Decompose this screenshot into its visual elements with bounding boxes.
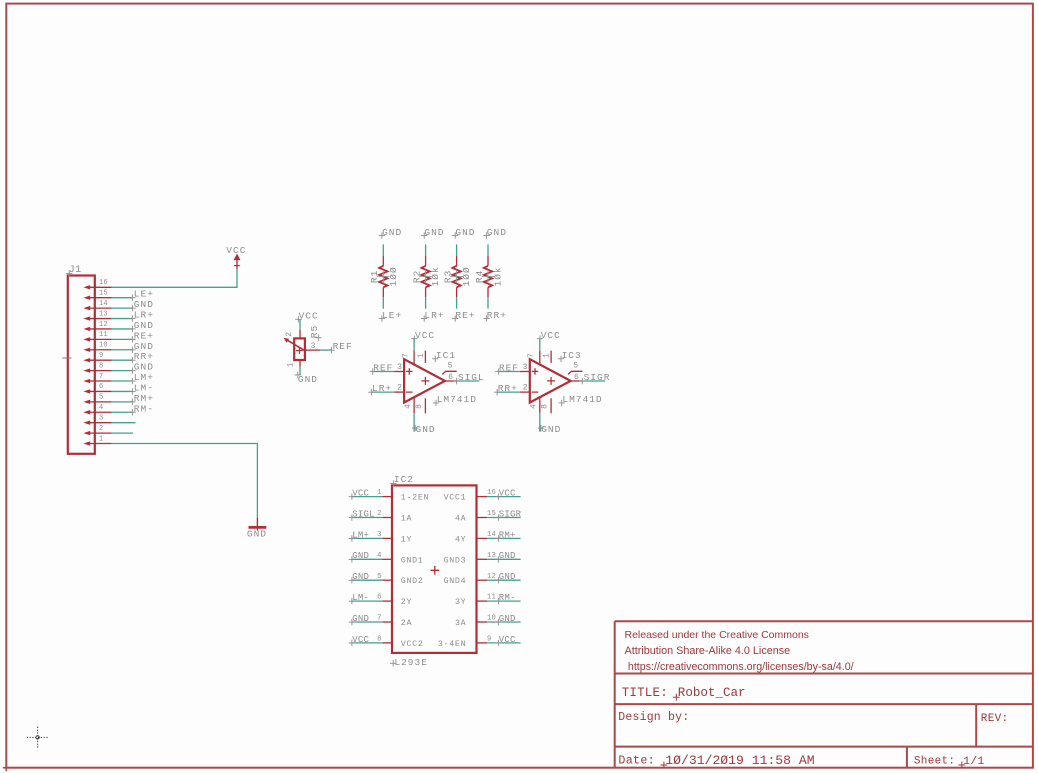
title block divider below Design by [615,746,1033,748]
H-bridge IC2 origin cross [430,566,439,575]
wire and net label RM+ at J1 pin 5 [112,401,133,403]
svg-text:RM-: RM- [134,403,154,414]
svg-text:SIGL: SIGL [458,372,485,383]
wire stub at J1 pin 2 [112,432,133,434]
J1 pin 3 [83,420,90,424]
net label LE+ below R1 [379,315,385,321]
IC2 pin 13 (GND3) [477,558,488,560]
svg-text:LM741D: LM741D [437,394,477,405]
svg-text:1Øk: 1Øk [493,266,504,286]
wire and net label RR+ at J1 pin 9 [112,359,133,361]
svg-text:IC3: IC3 [562,350,582,361]
svg-text:VCC: VCC [352,635,369,645]
wire below R3 [456,297,458,309]
svg-text:4Y: 4Y [455,535,466,544]
svg-text:8: 8 [415,404,424,409]
J1 pin 16 [83,285,90,289]
wire REF to IC3 [498,371,520,373]
op-amp IC1 pin 2 inverting input [394,391,405,393]
svg-text:1Y: 1Y [401,535,412,544]
svg-text:LM+: LM+ [352,530,369,540]
svg-text:LM-: LM- [352,593,369,603]
wire VCC to R5 [299,319,301,330]
svg-text:16: 16 [99,279,108,287]
svg-text:R1: R1 [369,270,380,283]
J1 pin 9 [83,358,90,362]
wire and net label LE+ at J1 pin 15 [112,297,133,299]
op-amp IC3 power pins 7 1 4 8 [539,351,541,365]
net label SIGR at IC3 [579,378,585,384]
wire and net label GND at IC2 pin 10 [487,621,520,623]
svg-text:1Øk: 1Øk [430,266,441,286]
svg-text:GND: GND [247,529,267,540]
resistor R3 [456,256,458,266]
wire and net label LM+ at J1 pin 7 [112,380,133,382]
potentiometer R5 wiper arrow [288,340,305,350]
wire and net label VCC at IC2 pin 1 [352,496,383,498]
IC2 pin 11 (3Y) [477,600,488,602]
net label RR+ below R4 [483,315,489,321]
svg-text:RE+: RE+ [455,310,475,321]
svg-text:5: 5 [448,362,453,371]
op-amp IC1 triangle body [404,359,445,402]
wire and net label GND at IC2 pin 5 [352,579,383,581]
wire and net label LM- at J1 pin 6 [112,390,133,392]
wire REF from R5 [320,349,332,351]
svg-text:REF: REF [499,363,519,374]
svg-text:R4: R4 [474,270,485,283]
op-amp IC3 value LM741D [559,400,565,406]
J1 pin 10 [83,348,90,352]
op-amp IC1 pin 6 output [445,380,457,382]
wire and net label GND at IC2 pin 13 [487,558,520,560]
svg-text:GND: GND [487,227,507,238]
title block outline [615,621,1033,768]
svg-text:8: 8 [541,404,550,409]
svg-text:6: 6 [99,383,103,391]
wire and net label RM- at J1 pin 4 [112,411,133,413]
wire VCC to IC1 [413,339,415,351]
wire and net label GND at IC2 pin 7 [352,621,383,623]
svg-text:GND: GND [382,227,402,238]
potentiometer R5 body [294,338,305,360]
svg-text:14: 14 [99,300,108,308]
net label REF at IC1 [370,368,376,374]
net label REF at R5 [328,347,334,353]
net label REF at IC3 [495,368,501,374]
date value [661,762,668,769]
svg-text:Date:: Date: [618,754,655,768]
wire REF to IC1 [373,371,395,373]
net label GND above R2 [421,232,427,238]
IC2 pin 9 (3-4EN) [477,642,488,644]
sheet origin marker (dotted cross) [27,727,48,748]
title block REV divider [975,704,977,747]
svg-text:VCC1: VCC1 [444,494,467,503]
J1 pin 11 [83,337,90,341]
J1 pin 4 [83,410,90,414]
op-amp IC1 value LM741D [433,400,439,406]
op-amp IC1 power pins 7 1 4 8 [413,351,415,365]
J1 pin 12 [83,327,90,331]
wire IC3 to GND [539,413,541,432]
H-bridge IC2 outline [392,485,477,653]
net label LR+ below R2 [421,315,427,321]
svg-text:RR+: RR+ [487,310,507,321]
net label VCC above R5 [295,316,301,322]
IC2 pin 1 (1-2EN) [382,496,392,498]
svg-text:GND1: GND1 [401,556,424,565]
connector J1 origin tick [62,357,71,359]
svg-text:IC2: IC2 [394,474,414,485]
net label GND below IC1 [412,425,418,431]
VCC supply symbol (arrow) above J1 [234,254,241,261]
H-bridge IC2 name [390,480,396,486]
IC2 pin 7 (2A) [382,621,392,623]
svg-text:9: 9 [99,352,103,360]
resistor R1 [382,256,384,266]
wire and net label RM- at IC2 pin 11 [487,600,520,602]
svg-text:LE+: LE+ [382,310,402,321]
svg-text:SIGL: SIGL [352,509,374,519]
svg-text:13: 13 [99,310,108,318]
svg-text:1ØØ: 1ØØ [461,266,472,286]
svg-text:4: 4 [530,404,539,409]
svg-text:3: 3 [397,363,402,372]
svg-text:RM+: RM+ [499,530,516,540]
H-bridge IC2 value L293E [390,660,396,666]
svg-text:1/1: 1/1 [963,756,984,768]
resistor R2 [425,256,427,266]
svg-text:GND: GND [134,320,154,331]
svg-text:5: 5 [99,394,103,402]
wire R5 to GND [299,366,301,374]
title block Sheet divider [906,747,908,768]
svg-text:1: 1 [287,362,296,367]
wire from J1 pin 16 to VCC [112,269,237,288]
svg-text:LM-: LM- [134,382,154,393]
svg-text:GND2: GND2 [401,577,424,586]
svg-text:7: 7 [527,353,536,358]
wire and net label GND at J1 pin 14 [112,307,133,309]
svg-text:6: 6 [574,373,579,382]
svg-text:GND: GND [499,572,516,582]
wire and net label LM- at IC2 pin 6 [352,600,383,602]
net label RE+ below R3 [452,315,458,321]
svg-text:GND: GND [499,614,516,624]
svg-text:2Y: 2Y [401,598,412,607]
svg-text:RR+: RR+ [498,383,518,394]
frame corner overshoot bottom-left [3,768,7,772]
svg-text:REV:: REV: [981,713,1009,725]
svg-text:GND: GND [298,374,318,385]
net label VCC above IC3 [537,336,543,342]
sheet value 1/1 [958,762,965,769]
svg-text:Design by:: Design by: [618,711,689,724]
wire LR+ to IC1 [371,391,394,393]
svg-text:1: 1 [543,353,552,358]
wire above R4 [487,244,489,256]
svg-text:REF: REF [373,363,393,374]
wire VCC to IC3 [539,339,541,351]
svg-text:GND4: GND4 [444,577,467,586]
wire and net label GND at J1 pin 8 [112,370,133,372]
svg-text:12: 12 [99,321,108,329]
IC2 pin 16 (VCC1) [477,496,488,498]
title block divider below TITLE [615,703,1033,705]
op-amp IC1 origin cross [421,377,429,385]
IC2 pin 6 (2Y) [382,600,392,602]
wire and net label RE+ at J1 pin 11 [112,338,133,340]
svg-text:RM-: RM- [499,593,516,603]
wire above R2 [425,244,427,256]
svg-text:VCC: VCC [541,330,561,341]
IC2 pin 5 (GND2) [382,579,392,581]
svg-text:GND: GND [416,424,436,435]
svg-text:1Ø/31/2Ø19 11:58 AM: 1Ø/31/2Ø19 11:58 AM [665,753,814,768]
svg-text:IC1: IC1 [436,350,456,361]
svg-text:GND: GND [352,614,369,624]
op-amp IC3 pin 5 offset stub [568,371,582,374]
svg-text:Released under the Creative Co: Released under the Creative Commons [625,629,809,641]
svg-text:1: 1 [417,353,426,358]
wire and net label SIGR at IC2 pin 15 [487,517,520,519]
net label GND above R3 [452,232,458,238]
svg-text:2A: 2A [401,619,412,628]
svg-text:GND: GND [455,227,475,238]
op-amp IC1 designator [432,356,438,362]
svg-text:3-4EN: 3-4EN [438,640,466,649]
potentiometer R5 pin 3 wiper [305,349,321,351]
op-amp IC3 pin 6 output [571,380,583,382]
svg-text:LM+: LM+ [134,372,154,383]
svg-text:RR+: RR+ [134,351,154,362]
IC2 pin 10 (3A) [477,621,488,623]
svg-text:R3: R3 [442,270,453,283]
wire and net label GND at IC2 pin 12 [487,579,520,581]
title value Robot_Car [673,694,680,701]
svg-text:TITLE:: TITLE: [622,686,668,700]
potentiometer R5 pin 2 [299,330,301,339]
svg-text:8: 8 [99,362,103,370]
svg-text:1ØØ: 1ØØ [388,266,399,286]
svg-text:GND: GND [352,551,369,561]
svg-text:R2: R2 [411,270,422,283]
wire below R2 [425,297,427,309]
svg-text:VCC: VCC [299,311,319,322]
svg-text:4A: 4A [455,515,466,524]
svg-text:VCC2: VCC2 [401,640,424,649]
IC2 pin 8 (VCC2) [382,642,392,644]
op-amp IC3 input polarity marks [532,368,538,392]
svg-text:https://creativecommons.org/li: https://creativecommons.org/licenses/by-… [628,661,854,673]
op-amp IC3 triangle body [530,359,571,402]
J1 pin 8 [83,368,90,372]
net label RR+ at IC3 [494,389,500,395]
IC2 pin 3 (1Y) [382,537,392,539]
svg-text:Robot_Car: Robot_Car [678,686,746,700]
svg-text:7: 7 [99,373,103,381]
svg-text:GND: GND [134,362,154,373]
svg-text:3: 3 [99,414,103,422]
wire stub at J1 pin 3 [112,422,136,424]
net label GND above R4 [483,232,489,238]
wire and net label VCC at IC2 pin 16 [487,496,520,498]
IC2 pin 2 (1A) [382,517,392,519]
svg-text:GND: GND [541,424,561,435]
svg-text:3A: 3A [455,619,466,628]
svg-text:SIGR: SIGR [584,372,611,383]
J1 pin 14 [83,306,90,310]
svg-text:VCC: VCC [415,330,435,341]
svg-text:3Y: 3Y [455,598,466,607]
wire and net label GND at J1 pin 12 [112,328,133,330]
wire above R3 [456,244,458,256]
wire from J1 pin 1 to GND symbol [112,444,258,519]
svg-text:RM+: RM+ [134,393,154,404]
IC2 pin 4 (GND1) [382,558,392,560]
svg-text:VCC: VCC [352,489,369,499]
op-amp IC1 pin 3 non-inverting input [394,371,405,373]
svg-text:GND: GND [134,299,154,310]
wire and net label LR+ at J1 pin 13 [112,318,133,320]
svg-text:11: 11 [99,331,108,339]
IC2 pin 12 (GND4) [477,579,488,581]
resistor R4 [487,256,489,266]
svg-text:4: 4 [404,404,413,409]
svg-text:1: 1 [99,435,103,443]
op-amp IC3 pin 3 non-inverting input [520,371,531,373]
net label GND below IC3 [538,425,544,431]
svg-text:VCC: VCC [499,635,516,645]
svg-text:Attribution Share-Alike 4.0 Li: Attribution Share-Alike 4.0 License [625,645,791,657]
wire and net label GND at J1 pin 10 [112,349,133,351]
op-amp IC3 pin 2 inverting input [520,391,531,393]
GND supply symbol bar [256,518,258,526]
op-amp IC1 input polarity marks [406,368,412,392]
svg-text:3: 3 [311,342,316,351]
svg-text:REF: REF [333,341,353,352]
J1 pin 13 [83,316,90,320]
op-amp IC3 origin cross [547,377,555,385]
net label GND above R1 [379,232,385,238]
svg-text:4: 4 [99,404,103,412]
svg-text:GND: GND [352,572,369,582]
svg-text:GND: GND [424,227,444,238]
svg-text:LR+: LR+ [134,310,154,321]
svg-text:10: 10 [99,342,108,350]
svg-text:3: 3 [523,363,528,372]
svg-text:1A: 1A [401,515,412,524]
wire above R1 [382,244,384,256]
wire and net label VCC at IC2 pin 8 [352,642,383,644]
net label LR+ at IC1 [368,389,374,395]
svg-text:LM741D: LM741D [562,394,602,405]
J1 pin 7 [83,379,90,383]
op-amp IC3 designator [558,356,564,362]
svg-text:Sheet:: Sheet: [914,756,955,768]
svg-text:LR+: LR+ [424,310,444,321]
net label VCC above IC1 [411,336,417,342]
net label SIGL at IC1 [453,378,459,384]
svg-text:1-2EN: 1-2EN [401,494,429,503]
J1 pin 5 [83,400,90,404]
title block divider below license [615,673,1033,675]
potentiometer R5 pin 1 [299,360,301,366]
connector J1 outline [68,276,95,454]
svg-text:7: 7 [402,353,411,358]
svg-text:VCC: VCC [226,245,246,256]
net label GND below R5 [295,372,301,378]
svg-text:6: 6 [448,373,453,382]
wire and net label VCC at IC2 pin 9 [487,642,520,644]
svg-text:2: 2 [397,383,402,392]
wire and net label GND at IC2 pin 4 [352,558,383,560]
svg-text:LR+: LR+ [372,383,392,394]
wire below R4 [487,297,489,309]
svg-text:VCC: VCC [499,489,516,499]
J1 pin 6 [83,389,90,393]
IC2 pin 14 (4Y) [477,537,488,539]
svg-text:GND: GND [499,551,516,561]
svg-text:GND3: GND3 [444,556,467,565]
J1 pin 2 [83,431,90,435]
wire and net label SIGL at IC2 pin 2 [352,517,383,519]
IC2 pin 15 (4A) [477,517,488,519]
svg-text:2: 2 [523,383,528,392]
op-amp IC1 pin 5 offset stub [442,371,456,374]
svg-text:GND: GND [134,341,154,352]
svg-text:L293E: L293E [394,657,428,668]
wire IC1 to GND [413,413,415,432]
wire and net label RM+ at IC2 pin 14 [487,537,520,539]
svg-text:SIGR: SIGR [499,509,522,519]
wire SIGR from IC3 [582,380,605,382]
J1 pin 1 [83,441,90,445]
svg-text:J1: J1 [69,265,82,276]
svg-text:LE+: LE+ [134,289,154,300]
svg-text:2: 2 [99,425,103,433]
svg-text:2: 2 [285,332,294,337]
wire below R1 [382,297,384,309]
wire SIGL from IC1 [457,380,480,382]
svg-text:RE+: RE+ [134,330,154,341]
J1 pin 15 [83,296,90,300]
svg-text:5: 5 [573,362,578,371]
wire and net label LM+ at IC2 pin 3 [352,537,383,539]
wire RR+ to IC3 [497,391,520,393]
svg-text:15: 15 [99,290,108,298]
